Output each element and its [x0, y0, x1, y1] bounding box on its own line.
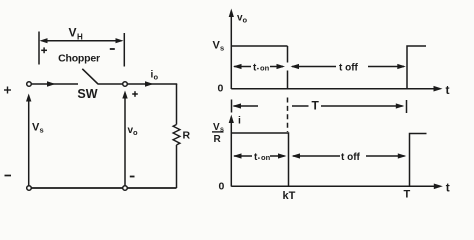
vo pulse 2	[407, 46, 426, 89]
svg-text:V: V	[69, 26, 77, 40]
current arrowhead on input wire	[47, 81, 56, 87]
wire right branch lower	[176, 145, 178, 188]
svg-text:o: o	[243, 16, 248, 25]
source minus sign	[5, 175, 12, 177]
label V_H	[69, 26, 84, 42]
svg-text:t: t	[446, 181, 450, 195]
svg-text:0: 0	[219, 181, 225, 193]
label v_o axis	[237, 13, 248, 25]
chopper plus polarity	[41, 47, 47, 53]
chopper minus polarity	[110, 48, 115, 50]
label V_s	[32, 122, 44, 135]
wire switch to node	[98, 83, 123, 85]
switch SW blade	[82, 69, 98, 84]
V_H bracket left bar	[38, 32, 40, 65]
svg-text:on: on	[260, 64, 270, 73]
vo pulse 1	[231, 46, 287, 89]
vo t-axis	[231, 88, 438, 90]
label i_o	[151, 70, 159, 82]
V_H dimension arrow	[40, 38, 124, 43]
output minus sign	[130, 176, 135, 178]
i pulse 1	[231, 133, 288, 186]
svg-text:T: T	[312, 99, 320, 113]
svg-text:s: s	[40, 126, 44, 135]
wire input to switch	[31, 83, 78, 85]
dashed kT alignment line	[287, 98, 289, 133]
svg-text:R: R	[183, 130, 191, 142]
wire right branch upper	[176, 84, 178, 125]
svg-text:o: o	[133, 128, 138, 137]
svg-text:t: t	[446, 83, 450, 97]
V_H bracket right bar	[123, 33, 125, 67]
t_on dimension arrow (bottom)	[233, 153, 287, 158]
label Vs/R level	[213, 122, 224, 145]
bottom rail wire	[31, 187, 176, 189]
node terminal bottom-left (open circle)	[27, 186, 32, 191]
node terminal top-left (open circle)	[27, 82, 32, 87]
svg-text:Chopper: Chopper	[58, 53, 100, 65]
current arrowhead i_o	[145, 81, 154, 87]
svg-text:o: o	[154, 73, 159, 82]
svg-text:kT: kT	[283, 190, 296, 202]
T tick left	[231, 100, 233, 113]
label V_s level	[213, 40, 225, 53]
T dimension arrow	[233, 103, 405, 108]
i t-axis	[231, 185, 438, 187]
resistor R	[173, 125, 180, 145]
t_off dimension arrow (bottom)	[292, 153, 407, 158]
i pulse 2	[410, 134, 427, 187]
svg-text:t off: t off	[339, 63, 359, 74]
vo y-axis	[230, 13, 232, 89]
output v_o polarity arrow line	[124, 94, 126, 186]
label t_on (bottom)	[254, 152, 271, 163]
svg-text:T: T	[404, 189, 411, 201]
wire node to load corner	[127, 83, 177, 85]
node terminal top-middle (open circle)	[123, 82, 128, 87]
svg-text:R: R	[214, 134, 222, 145]
t_off dimension arrow (top)	[291, 64, 406, 69]
i y-axis	[230, 119, 232, 187]
svg-text:0: 0	[218, 83, 224, 95]
output plus sign	[132, 91, 138, 97]
node terminal bottom-middle (open circle)	[123, 186, 128, 191]
label t_on (top)	[253, 63, 270, 74]
T tick right	[406, 100, 408, 113]
source plus sign	[4, 87, 11, 94]
svg-text:on: on	[261, 153, 271, 162]
label v_o	[128, 125, 139, 137]
t_on dimension arrow (top)	[233, 64, 285, 69]
svg-text:SW: SW	[77, 87, 97, 101]
source V_s polarity arrow line	[28, 97, 30, 186]
svg-text:i: i	[238, 115, 241, 127]
svg-text:s: s	[220, 44, 224, 53]
svg-text:t off: t off	[341, 152, 361, 163]
